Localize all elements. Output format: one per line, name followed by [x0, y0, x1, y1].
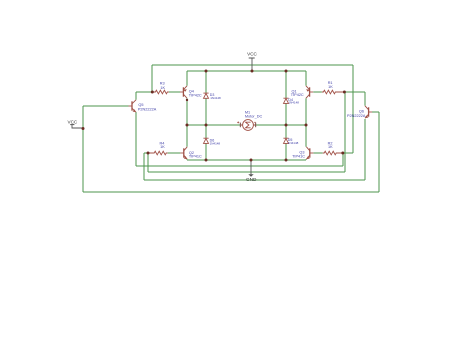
junction VCC rail center [251, 70, 254, 73]
junction gnd rail GND stem [250, 159, 253, 162]
wire Q2 collector and emitter stubs [186, 125, 188, 160]
wire right diode leg (D4 D5) [285, 71, 287, 160]
wire w2 (R4 node to R1 node) [148, 92, 345, 172]
diode D6 [203, 138, 208, 143]
junction R3-Q5 collector node [151, 91, 154, 94]
wire w4 (VCC left and Q5 base to Q6 base) [83, 106, 379, 192]
ground GND [246, 160, 257, 182]
wire top cross (Q5 collector node to R2 node) [152, 65, 353, 153]
wire Q6 collector link to R1 node [344, 92, 365, 106]
svg-text:P2N2222A: P2N2222A [138, 108, 157, 112]
transistor Q3 [306, 147, 313, 159]
svg-text:1N4148: 1N4148 [288, 101, 299, 105]
junction VCC left node [82, 127, 85, 130]
junction Q4 collector pin [186, 99, 188, 101]
diode D5 [283, 138, 288, 143]
junction motor rail D3-D6 [205, 124, 208, 127]
resistor R2 [313, 152, 322, 154]
junction gnd rail D6 [205, 159, 208, 162]
wire bottom gnd rail [187, 159, 306, 161]
svg-text:TIP41C: TIP41C [292, 154, 305, 158]
wire Q5 collector link [136, 92, 152, 100]
svg-text:TIP41C: TIP41C [189, 155, 202, 159]
junction motor rail Q1-Q3 [305, 124, 308, 127]
wire left diode leg (D3 D6) [205, 71, 207, 160]
power VCC left [68, 120, 83, 128]
transistor Q2 [180, 147, 187, 159]
svg-text:P2N2222A: P2N2222A [347, 114, 366, 118]
wire VCC rail [187, 70, 306, 72]
resistor R3 [152, 90, 169, 94]
transistor Q6 [365, 106, 372, 118]
resistor R1 [313, 91, 322, 93]
junction VCC rail right (D4) [285, 70, 288, 73]
svg-text:TIP42C: TIP42C [189, 93, 202, 97]
svg-text:VCC: VCC [247, 52, 257, 57]
transistor Q4 [180, 86, 187, 98]
wire Q3 collector and emitter stubs [305, 125, 307, 160]
svg-text:1K: 1K [160, 145, 165, 149]
junction motor rail Q4-Q2 [186, 124, 189, 127]
transistor Q1 [306, 86, 313, 98]
svg-text:1N4148: 1N4148 [210, 96, 221, 100]
junction R2 node [341, 152, 344, 155]
power VCC top [247, 52, 257, 71]
junction VCC rail left (D3) [205, 70, 208, 73]
wire w3 (R4 node to Q6 emitter) [144, 119, 365, 180]
wire Q1 emitter up and collector down [305, 71, 307, 125]
svg-text:TIP42C: TIP42C [291, 93, 304, 97]
svg-text:1N4148: 1N4148 [210, 141, 221, 145]
svg-text:VCC: VCC [68, 120, 78, 125]
wire w1 (Q5 emitter to R2 node) [136, 112, 343, 166]
svg-text:1N4148: 1N4148 [288, 141, 299, 145]
motor M1 [240, 120, 255, 131]
resistor R4 [148, 151, 168, 155]
diode D3 [203, 93, 208, 98]
junction R4 node [147, 152, 150, 155]
svg-text:GND: GND [246, 177, 257, 182]
junction gnd rail D5 [285, 159, 288, 162]
svg-text:Q5: Q5 [138, 103, 143, 107]
svg-text:Motor_DC: Motor_DC [245, 115, 263, 119]
transistor Q5 [129, 100, 137, 112]
svg-text:1K: 1K [160, 86, 165, 90]
junction motor rail D4-D5 [285, 124, 288, 127]
svg-text:1K: 1K [328, 145, 333, 149]
wire motor rail [187, 124, 306, 126]
wire Q4 emitter up and collector down [186, 71, 188, 125]
wire Q5 base feed [83, 105, 129, 107]
junction R1 node [343, 91, 346, 94]
diode D4 [283, 98, 288, 103]
svg-text:1K: 1K [328, 85, 333, 89]
